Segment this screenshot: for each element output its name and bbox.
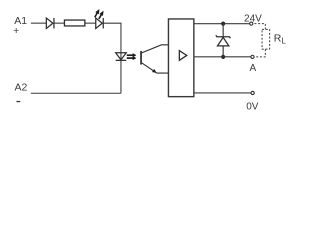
diode D1 bbox=[46, 18, 54, 29]
svg-text:24V: 24V bbox=[244, 14, 262, 25]
terminal 24V bbox=[250, 22, 253, 25]
svg-text:RL: RL bbox=[274, 33, 287, 46]
wire opto LED cathode down bbox=[120, 60, 122, 93]
wire A rail bbox=[194, 56, 251, 58]
svg-text:+: + bbox=[13, 25, 19, 37]
junction dot zener top bbox=[221, 22, 225, 26]
buffer triangle bbox=[179, 51, 186, 61]
resistor R1 bbox=[64, 20, 84, 26]
terminal 0V bbox=[251, 91, 254, 94]
wire LED to corner down to optocoupler bbox=[103, 23, 121, 60]
wire R1 to LED bbox=[85, 22, 96, 24]
svg-text:A2: A2 bbox=[14, 82, 27, 94]
zener diode Z1 bbox=[216, 24, 231, 57]
svg-text:0V: 0V bbox=[246, 101, 259, 112]
IC box U1 bbox=[168, 19, 193, 97]
wire A2 rail bbox=[31, 92, 121, 94]
wire A1 lead bbox=[31, 22, 47, 24]
svg-text:A: A bbox=[249, 63, 256, 74]
junction dot zener bottom bbox=[221, 55, 225, 59]
light coupling arrows bbox=[127, 54, 136, 60]
optocoupler phototransistor Q1 bbox=[141, 45, 168, 73]
wire D1 to R1 bbox=[54, 22, 64, 24]
dashed wire 24V terminal to RL bbox=[254, 24, 265, 30]
LED emission arrows bbox=[95, 9, 104, 19]
terminal A bbox=[251, 55, 254, 58]
wire 24V rail bbox=[194, 23, 250, 25]
LED D2 bbox=[96, 18, 104, 29]
optocoupler LED (cathode down) bbox=[116, 53, 127, 61]
dashed wire RL to A terminal bbox=[255, 49, 266, 57]
polarity minus bbox=[16, 101, 20, 103]
load resistor RL (dashed box) bbox=[262, 29, 270, 49]
wire 0V rail bbox=[194, 92, 251, 94]
